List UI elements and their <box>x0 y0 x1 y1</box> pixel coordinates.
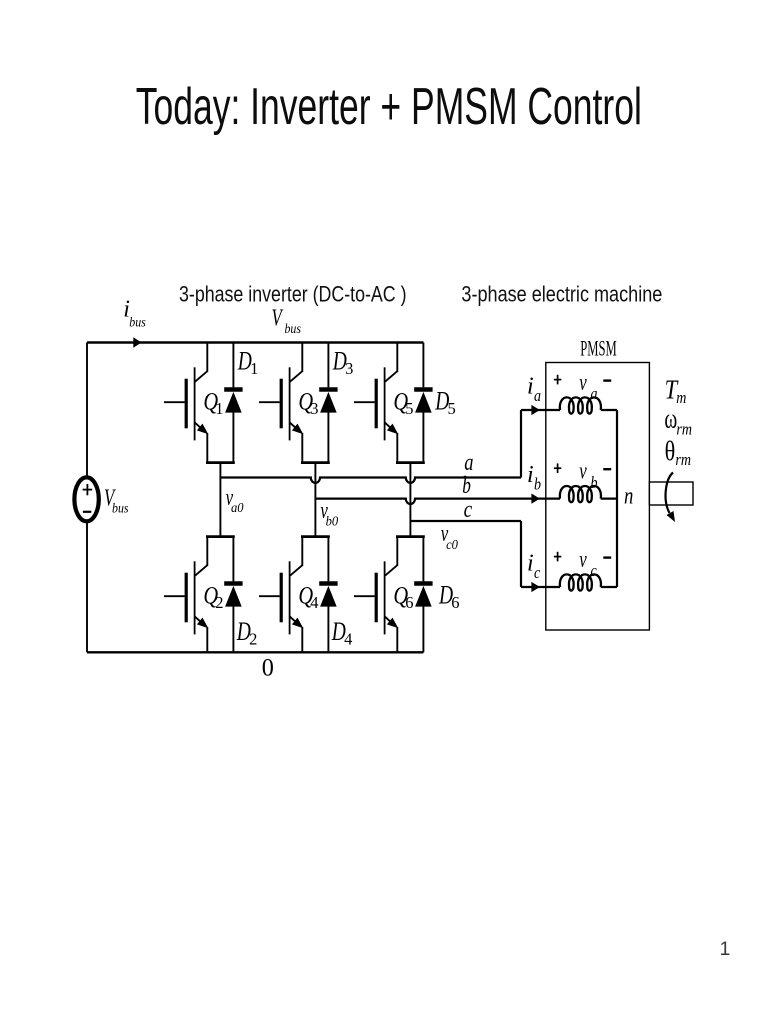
wire: phase a with hops <box>220 478 521 483</box>
svg-text:6: 6 <box>451 593 459 612</box>
svg-text:a0: a0 <box>231 499 244 515</box>
label − (v_c) <box>603 556 611 558</box>
svg-text:v: v <box>579 459 587 484</box>
wire: left rail upper <box>86 343 88 477</box>
source minus sign <box>83 511 91 513</box>
label + (v_a) <box>554 379 561 381</box>
svg-text:1: 1 <box>720 938 731 960</box>
svg-text:bus: bus <box>285 320 302 336</box>
wire: winding c right lead <box>601 586 617 588</box>
svg-text:0: 0 <box>262 654 274 682</box>
svg-text:6: 6 <box>405 593 413 612</box>
svg-text:rm: rm <box>676 420 692 438</box>
svg-text:b: b <box>462 471 471 499</box>
transistor Q6 (IGBT) <box>354 537 398 653</box>
svg-text:4: 4 <box>344 629 352 648</box>
rotation arrow <box>666 473 673 514</box>
transistor Q3 (IGBT) <box>259 343 303 463</box>
svg-text:4: 4 <box>310 593 318 612</box>
wire: phase c jog down <box>520 521 522 587</box>
transistor Q2 (IGBT) <box>164 537 208 653</box>
svg-text:3-phase inverter (DC-to-AC ): 3-phase inverter (DC-to-AC ) <box>179 283 407 307</box>
wire: winding b right lead <box>601 498 617 500</box>
svg-text:Today: Inverter + PMSM Control: Today: Inverter + PMSM Control <box>136 79 642 136</box>
diode D2 <box>224 537 242 653</box>
svg-text:i: i <box>527 551 534 577</box>
svg-text:b: b <box>591 474 598 492</box>
arrow i_c <box>531 582 540 592</box>
svg-text:PMSM: PMSM <box>580 336 617 361</box>
svg-text:c0: c0 <box>446 536 458 552</box>
transistor Q5 (IGBT) <box>354 343 398 463</box>
svg-text:1: 1 <box>215 399 223 418</box>
svg-text:c: c <box>534 564 540 582</box>
svg-text:v: v <box>579 370 587 395</box>
wire: phase c <box>410 520 521 522</box>
wire: left rail lower <box>86 523 88 653</box>
svg-text:θ: θ <box>665 437 676 467</box>
wire: phase c into machine <box>521 586 560 588</box>
svg-text:5: 5 <box>405 399 413 418</box>
svg-text:bus: bus <box>112 500 129 516</box>
svg-text:5: 5 <box>448 399 456 418</box>
wire: leg1 midpoint vertical (node a) <box>219 463 221 537</box>
diode D5 <box>414 343 432 463</box>
wire: leg2 midpoint vertical (node b) <box>314 463 316 537</box>
wire: neutral vertical <box>616 410 618 587</box>
svg-text:1: 1 <box>250 359 258 378</box>
wire: phase a into machine <box>521 409 560 411</box>
svg-text:2: 2 <box>249 629 257 648</box>
svg-text:2: 2 <box>215 593 223 612</box>
label + (v_b) <box>554 467 561 469</box>
svg-text:ω: ω <box>664 403 677 434</box>
shaft <box>649 482 693 505</box>
junction bar below Q1/D1 <box>206 461 235 464</box>
svg-text:3-phase electric machine: 3-phase electric machine <box>461 283 662 307</box>
arrow i_a <box>531 405 540 415</box>
svg-text:m: m <box>676 389 686 407</box>
wire: phase a jog up <box>520 410 522 478</box>
wire: bottom DC bus <box>87 651 423 653</box>
label + (v_c) <box>554 556 561 558</box>
arrow i_bus <box>133 337 141 347</box>
junction bar above Q2/D2 <box>206 535 235 538</box>
svg-text:3: 3 <box>310 399 318 418</box>
wire: leg3 midpoint vertical (node c) <box>409 463 411 537</box>
svg-text:b0: b0 <box>326 513 339 529</box>
svg-text:c: c <box>591 562 597 580</box>
junction bar above Q4/D4 <box>301 535 330 538</box>
svg-text:b: b <box>534 476 541 494</box>
svg-text:i: i <box>527 462 534 488</box>
source plus sign <box>83 489 93 491</box>
diode D1 <box>224 343 242 463</box>
PMSM box <box>546 363 650 631</box>
svg-text:a: a <box>591 385 598 403</box>
winding v_b (inductor) <box>560 486 601 502</box>
svg-text:v: v <box>579 547 587 572</box>
label − (v_b) <box>603 468 611 470</box>
wire: top DC bus <box>87 341 423 343</box>
junction bar above Q6/D6 <box>396 535 425 538</box>
svg-text:c: c <box>464 496 473 523</box>
svg-text:3: 3 <box>345 359 353 378</box>
label − (v_a) <box>603 379 611 381</box>
junction bar below Q3/D3 <box>301 461 330 464</box>
diode D3 <box>319 343 337 463</box>
svg-text:V: V <box>272 306 284 331</box>
transistor Q4 (IGBT) <box>259 537 303 653</box>
svg-text:i: i <box>527 374 534 400</box>
junction bar below Q5/D5 <box>396 461 425 464</box>
winding v_c (inductor) <box>560 574 601 590</box>
svg-text:bus: bus <box>129 314 146 330</box>
wire: winding a right lead <box>601 409 617 411</box>
svg-text:a: a <box>534 387 541 405</box>
wire: phase b with hop <box>315 499 560 504</box>
arrow i_b <box>531 494 540 504</box>
winding v_a (inductor) <box>560 397 601 413</box>
diode D4 <box>319 537 337 653</box>
voltage source V_bus <box>74 477 98 521</box>
diode D6 <box>414 537 432 653</box>
svg-text:rm: rm <box>675 451 691 469</box>
svg-text:n: n <box>624 482 633 509</box>
transistor Q1 (IGBT) <box>164 343 208 463</box>
